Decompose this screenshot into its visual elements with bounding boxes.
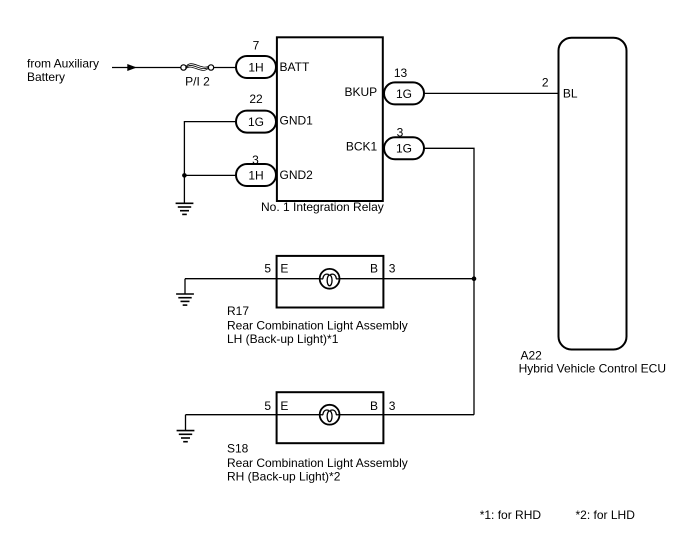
svg-text:BATT: BATT (280, 60, 310, 74)
svg-text:LH (Back-up Light)*1: LH (Back-up Light)*1 (227, 332, 339, 346)
svg-text:Rear Combination Light Assembl: Rear Combination Light Assembly (227, 456, 408, 470)
svg-text:1G: 1G (396, 142, 412, 156)
svg-text:3: 3 (397, 126, 404, 140)
svg-text:B: B (370, 261, 378, 275)
svg-text:2: 2 (542, 75, 549, 89)
svg-text:*2: for LHD: *2: for LHD (576, 508, 636, 522)
svg-text:B: B (370, 399, 378, 413)
svg-text:5: 5 (264, 261, 271, 275)
svg-text:R17: R17 (227, 304, 249, 318)
svg-text:Battery: Battery (27, 70, 65, 84)
svg-text:No. 1 Integration Relay: No. 1 Integration Relay (261, 200, 384, 214)
svg-text:BL: BL (563, 86, 578, 100)
svg-text:BCK1: BCK1 (346, 140, 378, 154)
svg-text:from Auxiliary: from Auxiliary (27, 56, 99, 70)
svg-text:1G: 1G (396, 87, 412, 101)
svg-text:1G: 1G (248, 115, 264, 129)
svg-text:3: 3 (252, 153, 259, 167)
svg-text:1H: 1H (248, 168, 263, 182)
svg-text:3: 3 (389, 261, 396, 275)
svg-text:Hybrid Vehicle Control ECU: Hybrid Vehicle Control ECU (519, 362, 666, 376)
svg-text:S18: S18 (227, 441, 249, 455)
svg-text:E: E (280, 261, 288, 275)
svg-text:3: 3 (389, 399, 396, 413)
svg-text:13: 13 (394, 66, 408, 80)
svg-text:7: 7 (253, 39, 260, 53)
svg-text:A22: A22 (521, 349, 543, 363)
svg-text:E: E (280, 399, 288, 413)
svg-text:RH (Back-up Light)*2: RH (Back-up Light)*2 (227, 470, 341, 484)
svg-text:GND2: GND2 (280, 168, 314, 182)
svg-text:22: 22 (249, 92, 263, 106)
svg-text:P/I 2: P/I 2 (185, 74, 210, 88)
svg-text:1H: 1H (248, 60, 263, 74)
svg-text:Rear Combination Light Assembl: Rear Combination Light Assembly (227, 318, 408, 332)
svg-text:GND1: GND1 (280, 114, 314, 128)
svg-text:BKUP: BKUP (345, 85, 378, 99)
svg-text:*1: for RHD: *1: for RHD (480, 508, 542, 522)
svg-text:5: 5 (264, 399, 271, 413)
